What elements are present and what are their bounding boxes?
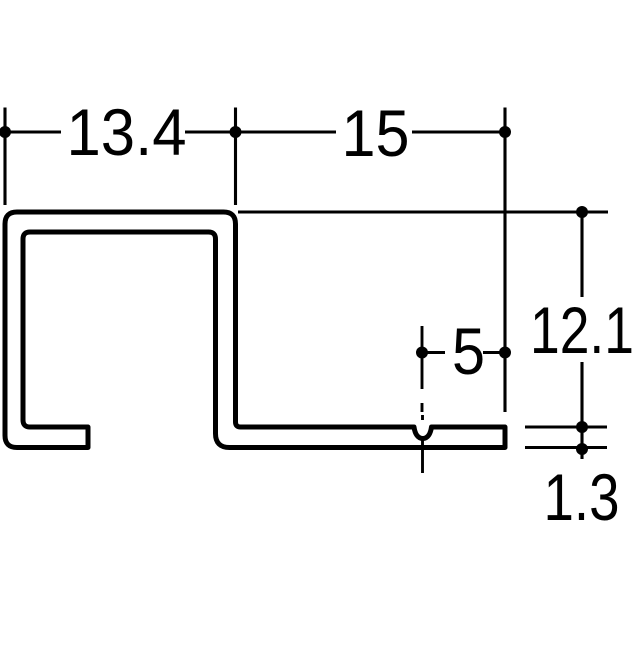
top extension line for 12.1 — [238, 210, 608, 213]
dot 15 right — [499, 126, 511, 138]
dim 13.4 line — [5, 130, 61, 133]
svg-text:12.1: 12.1 — [530, 293, 634, 367]
centerline through strip below notch — [421, 436, 424, 473]
svg-text:13.4: 13.4 — [67, 95, 187, 169]
dot 5 right — [499, 347, 511, 359]
centerline (dash-dot) above — [421, 326, 424, 389]
dot 1.3 bottom — [576, 443, 588, 455]
dot 12.1 bottom / 1.3 top — [576, 421, 588, 433]
dim 13.4 tick left — [3, 108, 6, 206]
svg-text:1.3: 1.3 — [544, 460, 620, 534]
1.3 extension line lower — [525, 446, 607, 449]
centerline short segment above notch — [421, 415, 424, 420]
dim 5 line — [427, 351, 445, 354]
dot 12.1 top — [576, 206, 588, 218]
dot 13.4 right / 15 left — [230, 126, 242, 138]
dim 15 line — [236, 130, 337, 133]
dim 12.1 vertical line upper — [580, 212, 583, 297]
centerline dash — [421, 403, 424, 412]
dim 13.4/15 tick middle — [234, 108, 237, 206]
dim 12.1 vertical line lower — [580, 362, 583, 459]
svg-text:5: 5 — [452, 314, 485, 388]
1.3 extension line upper — [525, 425, 607, 428]
dot 5 left — [416, 347, 428, 359]
dot 13.4 left — [0, 126, 11, 138]
dim 15 tick right (long, down to strip) — [503, 108, 506, 413]
svg-text:15: 15 — [342, 96, 410, 170]
profile outline (sheet-metal cross-section) — [5, 212, 505, 448]
